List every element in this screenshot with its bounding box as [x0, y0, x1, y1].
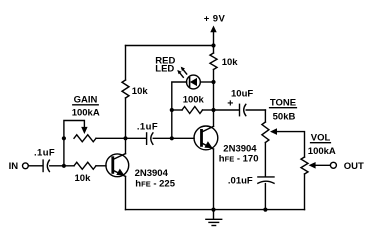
power +9V arrow — [210, 26, 216, 46]
svg-text:+: + — [227, 98, 233, 110]
node GAIN pot left junction — [62, 136, 66, 140]
label GAIN underline — [73, 104, 98, 106]
svg-text:.1uF: .1uF — [137, 121, 158, 132]
wire input cap to base resistor — [50, 165, 74, 167]
label VOL underline — [311, 142, 331, 144]
LED RED (indicator/bias) — [177, 67, 200, 89]
svg-text:IN: IN — [9, 161, 19, 172]
wire IN to input cap — [28, 165, 42, 167]
label TONE underline — [270, 107, 297, 109]
node Q2 base junction — [170, 136, 174, 140]
svg-text:+ 9V: + 9V — [204, 13, 226, 24]
node LED right junction — [211, 80, 215, 84]
svg-text:VOL: VOL — [311, 133, 331, 144]
capacitor 10uF (output coupling) — [214, 104, 266, 115]
wire Q2 emitter to ground rail — [213, 149, 215, 210]
svg-text:10k: 10k — [132, 86, 149, 97]
wire TONE bottom to .01uF — [264, 143, 266, 177]
node Q2 collector junction — [211, 108, 215, 112]
wire gain pot to coupling cap — [96, 137, 146, 139]
svg-text:100kA: 100kA — [308, 146, 336, 157]
svg-text:hFE - 225: hFE - 225 — [135, 179, 175, 190]
capacitor .1uF (interstage) — [147, 133, 153, 144]
svg-text:GAIN: GAIN — [74, 95, 98, 106]
wire ground rail — [126, 209, 305, 211]
svg-text:.1uF: .1uF — [34, 147, 55, 158]
terminal OUT — [330, 162, 336, 168]
wire supply to 10k — [213, 46, 215, 54]
node supply junction — [211, 43, 215, 47]
wire left branch lower — [125, 98, 127, 138]
svg-text:10k: 10k — [75, 173, 92, 184]
wire Q1 emitter to ground rail — [125, 176, 127, 209]
svg-text:.01uF: .01uF — [228, 175, 253, 186]
svg-text:10k: 10k — [222, 57, 239, 68]
potentiometer TONE 50kB — [262, 110, 305, 157]
wire Q1 collector — [125, 138, 127, 153]
node Q1 collector junction — [123, 136, 127, 140]
svg-text:OUT: OUT — [344, 161, 364, 172]
wire LED node vertical — [172, 82, 187, 138]
transistor Q2 2N3904 — [194, 126, 218, 150]
wire collector junction down to Q2 — [213, 110, 215, 126]
potentiometer GAIN 100kA — [64, 121, 96, 142]
node input junction — [62, 164, 66, 168]
wire left branch upper — [125, 46, 127, 81]
wire pot-left down to input node — [63, 138, 65, 166]
wire coupling cap to Q2 base — [153, 137, 194, 139]
transistor Q1 2N3904 — [106, 154, 129, 177]
wire LED cathode-side — [200, 81, 213, 83]
svg-text:2N3904: 2N3904 — [135, 168, 169, 179]
resistor 100k (feedback) — [172, 107, 214, 114]
capacitor .1uF (input) — [43, 160, 49, 171]
resistor 10k (Q1 base) — [74, 162, 96, 169]
node .01uF ground junction — [263, 208, 267, 212]
svg-text:100k: 100k — [183, 95, 205, 106]
capacitor .01uF (tone) — [258, 177, 274, 210]
node ground junction — [211, 208, 215, 212]
resistor 10k (Q1 collector load) — [122, 80, 129, 98]
svg-text:50kB: 50kB — [273, 112, 296, 123]
node 100k left junction — [170, 108, 174, 112]
svg-text:100kA: 100kA — [72, 107, 100, 118]
wire 10k to LED node — [213, 70, 215, 111]
wire base resistor to Q1 — [96, 165, 106, 167]
svg-text:LED: LED — [155, 63, 174, 74]
wire top supply rail — [126, 45, 214, 47]
resistor 10k (Q2 collector load) — [210, 53, 217, 70]
svg-text:hFE - 170: hFE - 170 — [219, 153, 259, 164]
potentiometer VOL 100kA — [301, 157, 330, 210]
terminal IN — [23, 163, 29, 169]
svg-text:10uF: 10uF — [231, 89, 253, 100]
ground — [206, 210, 222, 226]
